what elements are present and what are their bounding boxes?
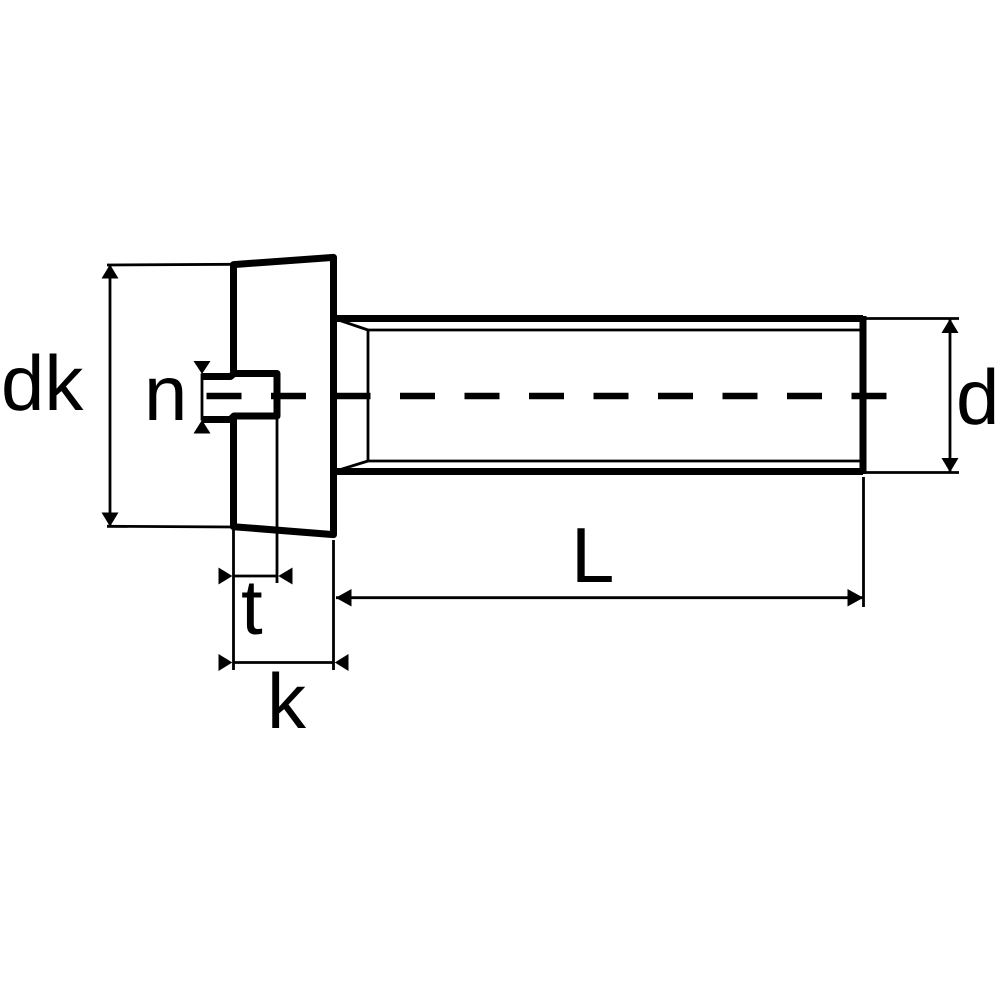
svg-text:dk: dk xyxy=(1,339,84,427)
k right arrow xyxy=(335,654,349,671)
d dimension line xyxy=(949,319,952,472)
dk dimension line xyxy=(109,265,112,526)
svg-text:L: L xyxy=(571,511,614,599)
slot outline xyxy=(202,374,278,420)
t left extension line xyxy=(232,530,235,670)
L right extension line xyxy=(862,477,865,607)
thread start vertical xyxy=(367,330,370,461)
k dimension line xyxy=(234,661,334,664)
k left arrow xyxy=(219,654,233,671)
d top arrow xyxy=(942,319,959,333)
t left arrow xyxy=(219,568,233,585)
n top arrow xyxy=(194,361,211,374)
svg-text:t: t xyxy=(241,563,263,651)
thread minor top line xyxy=(368,329,862,332)
svg-text:n: n xyxy=(144,349,187,437)
slot fill (white-out) xyxy=(201,372,279,422)
dk top extension line xyxy=(107,263,234,267)
L left arrow xyxy=(336,589,352,607)
d top extension line xyxy=(866,317,959,320)
shaft outer bottom line xyxy=(331,468,863,475)
svg-text:k: k xyxy=(267,657,307,745)
svg-text:d: d xyxy=(956,353,999,441)
d bottom arrow xyxy=(942,458,959,472)
chamfer bottom slant xyxy=(335,461,368,471)
k right extension line xyxy=(332,540,335,670)
d bottom extension line xyxy=(866,471,959,474)
t dimension line xyxy=(234,575,278,578)
dk top arrow xyxy=(102,265,119,279)
dk bottom extension line xyxy=(107,525,234,529)
screw head outline xyxy=(234,257,334,534)
screw head face fill xyxy=(234,258,334,535)
thread minor bottom line xyxy=(368,460,862,463)
shaft outer top line xyxy=(331,315,863,322)
L dimension line xyxy=(336,596,863,599)
chamfer top slant xyxy=(335,319,368,330)
shaft right end xyxy=(860,316,867,474)
slot left edge (thin) / n dimension line xyxy=(201,374,204,421)
t right arrow xyxy=(278,568,292,585)
t right extension line xyxy=(276,418,279,583)
n bottom arrow xyxy=(194,420,211,434)
center line (dashed) xyxy=(207,393,888,400)
dk bottom arrow xyxy=(102,513,119,527)
L right arrow xyxy=(848,589,864,607)
